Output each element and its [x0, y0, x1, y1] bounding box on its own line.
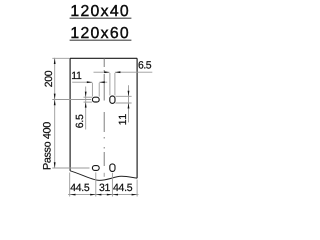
arrow up to slot2 bottom [128, 103, 130, 109]
bottom arrows at x=95.8 [90, 194, 96, 196]
arrow down to slot1 top [85, 92, 87, 98]
break line (bottom wavy edge) [70, 171, 137, 181]
plate outline top edge [70, 57, 137, 59]
ext line slot1 top [84, 96, 93, 98]
dim 11 arrow left-pointing [99, 81, 105, 83]
ext line slot1 left edge [91, 83, 93, 97]
ext line slot1 right edge [98, 83, 100, 97]
ext line slot2 right edge [114, 73, 116, 95]
dim 11 line left segment [72, 81, 92, 83]
ref line mid (hole row 1) [52, 99, 91, 101]
slot bottom-right [110, 164, 115, 172]
dim 6.5 arrow right-pointing [104, 71, 110, 73]
ext line slot2 bottom [115, 102, 131, 104]
dim 11 arrow right-pointing [87, 81, 93, 83]
plate left edge [69, 58, 71, 171]
ref line top [52, 57, 69, 59]
svg-text:Passo 400: Passo 400 [42, 122, 54, 170]
bottom ext line at x=137 [136, 180, 138, 197]
svg-text:11: 11 [117, 113, 129, 125]
arrow down to slot2 top [128, 91, 130, 97]
svg-text:44.5: 44.5 [113, 182, 133, 194]
svg-text:6.5: 6.5 [138, 59, 152, 71]
ext line slot2 left edge [109, 73, 111, 95]
svg-text:31: 31 [99, 182, 111, 194]
svg-text:200: 200 [43, 70, 55, 87]
bottom arrow at x=137 [132, 194, 138, 196]
dim 6.5 line left segment [94, 71, 110, 73]
bottom ext line at x=95.8 [95, 172, 97, 196]
bottom arrows at x=70 [70, 194, 76, 196]
svg-text:6.5: 6.5 [74, 114, 86, 128]
slot top-right (6.5x11) [110, 96, 115, 103]
title underline 2 [70, 39, 132, 41]
dim 6.5 left (slot1 height) vertical line [85, 87, 87, 130]
dim 200 / Passo 400 vertical line [54, 58, 56, 168]
slot bottom-left [92, 166, 99, 171]
bottom ext line at x=112.4 [111, 173, 113, 197]
dim 11 line right segment [99, 81, 107, 83]
vertical centerline (dash-dot segments) [103, 58, 105, 177]
ext line slot2 top [115, 95, 131, 97]
svg-text:11: 11 [71, 70, 82, 82]
svg-text:120x40: 120x40 [70, 3, 130, 20]
dim 11 right (slot2 height) vertical line [128, 85, 130, 122]
arrow down at bottom tick y=168 [54, 162, 56, 168]
bottom arrows at x=112.4 [107, 194, 113, 196]
bottom ext line at x=70 [69, 173, 71, 197]
plate right edge [136, 58, 138, 178]
dim 6.5 line right segment [115, 71, 152, 73]
arrow up to slot1 bottom [85, 102, 87, 108]
ext line slot1 bottom [84, 101, 93, 103]
arrow up at top edge [54, 58, 56, 64]
ref line bottom (hole row 2) [52, 167, 89, 169]
title underline 1 [70, 17, 132, 19]
arrows at mid tick y=99.4 [54, 94, 56, 100]
svg-text:44.5: 44.5 [70, 182, 90, 194]
bottom dim line [68, 194, 139, 196]
slot top-left (11x6.5) [92, 97, 99, 102]
dim 6.5 arrow left-pointing [115, 71, 121, 73]
